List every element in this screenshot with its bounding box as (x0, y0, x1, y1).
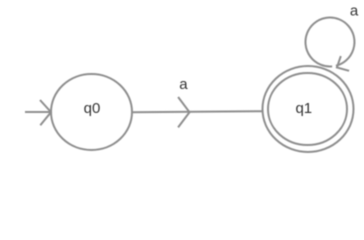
state q0 circle (51, 74, 132, 150)
initial-state arrow wire (25, 111, 50, 113)
state q1 outer circle (263, 66, 354, 152)
svg-text:a: a (179, 76, 188, 93)
initial-state arrowhead (40, 100, 51, 125)
self-loop arrowhead (337, 56, 349, 71)
self-loop wire on q1 (305, 18, 354, 67)
state q1 inner circle (268, 73, 347, 145)
svg-text:q0: q0 (84, 100, 101, 117)
svg-text:a: a (350, 2, 359, 19)
svg-text:q1: q1 (295, 100, 312, 117)
transition arrowhead q0 to q1 (178, 97, 189, 127)
transition wire q0 to q1 (132, 111, 263, 112)
